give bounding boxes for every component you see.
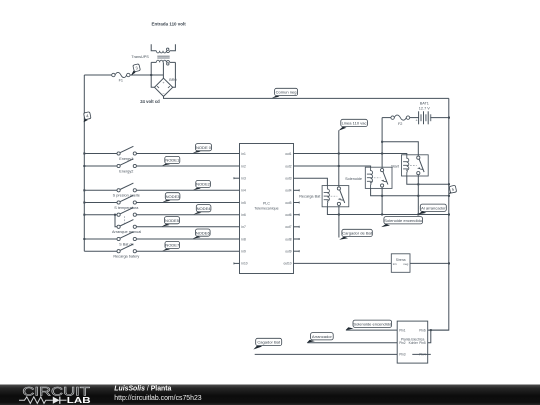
- relay Start: [391, 155, 428, 176]
- switch S temperatura: [83, 195, 239, 210]
- wire: fuse F1 to transformer/bridge assembly: [130, 74, 163, 76]
- wire: Pin1 from Solenoide encendido flag: [346, 329, 397, 331]
- net flag Solenoide encendido: [381, 217, 423, 228]
- wire: Comun neg, bridge bottom vertex across to right rail: [164, 96, 449, 98]
- svg-text:Pin4: Pin4: [419, 353, 426, 357]
- wire: 110V input horizontal from left rail to fuse F1: [84, 74, 111, 76]
- switch S Bat ok: [83, 232, 239, 247]
- transformer TransUPS: [151, 44, 175, 65]
- svg-text:in1: in1: [242, 152, 246, 156]
- svg-text:S Bat ok: S Bat ok: [119, 242, 133, 246]
- svg-text:Energy2: Energy2: [119, 169, 133, 173]
- junction rail / battery negative: [448, 117, 450, 119]
- svg-text:in10: in10: [242, 262, 248, 266]
- svg-text:NODE6: NODE6: [196, 230, 211, 235]
- svg-text:12.7 V: 12.7 V: [419, 107, 430, 111]
- CircuitLab logo: [19, 385, 91, 405]
- wire: Linea 110 vac vertical to Recarga Bat switch: [338, 130, 340, 185]
- wire: Solenoide coil bottom to rail: [371, 188, 449, 195]
- bridge rectifier BR0: [155, 78, 173, 96]
- wire: Recarga coil bottom to rail: [327, 207, 448, 215]
- svg-text:in6: in6: [242, 213, 246, 217]
- svg-text:Linea 110 vac: Linea 110 vac: [342, 121, 367, 126]
- junction at input wire and left leg: [150, 74, 152, 76]
- svg-text:BR0: BR0: [169, 78, 176, 82]
- Sirena box: [391, 254, 410, 272]
- svg-text:NODE3: NODE3: [166, 194, 181, 199]
- svg-text:out2: out2: [285, 164, 291, 168]
- svg-text:Pin2: Pin2: [399, 341, 406, 345]
- net flag Solenoide encendido (bottom): [346, 320, 392, 330]
- wire: branch to Start relay switch top: [382, 142, 418, 155]
- node flag NODE3: [162, 193, 180, 203]
- wire: Pin6 stub to rail junction: [428, 329, 449, 331]
- dashed mechanical link of Arranque manual: [124, 216, 126, 224]
- svg-text:neg: neg: [403, 262, 408, 266]
- svg-text:LuisSolis / Planta: LuisSolis / Planta: [114, 385, 171, 392]
- wire: Pin3 from Cagador Bat flag: [255, 353, 398, 355]
- net flag Cargador de Bat: [339, 229, 373, 240]
- switch Energy1: [83, 146, 239, 161]
- primary bracket: [151, 44, 175, 50]
- svg-text:NODE2: NODE2: [196, 182, 211, 187]
- secondary coil: [156, 60, 169, 62]
- svg-text:out9: out9: [285, 250, 291, 254]
- svg-text:Recarga Bat: Recarga Bat: [299, 194, 321, 198]
- svg-text:NODE 0: NODE 0: [196, 145, 212, 150]
- pin out9 (stub): [285, 250, 299, 254]
- wire: out10 to Sirena: [294, 262, 392, 264]
- junction battery feed / Start switch branch: [381, 141, 383, 143]
- net flag Al arrancador: [418, 204, 447, 214]
- fuse F2: [382, 115, 410, 126]
- wire: Recarga switch bottom down to Cargador de Bat flag: [338, 207, 340, 238]
- svg-text:Arranque manual: Arranque manual: [112, 230, 141, 234]
- wire: right rail (Comun neg): [431, 98, 449, 330]
- wire: Pin6 to Pin5 link: [428, 330, 431, 343]
- svg-text:Telemecanique: Telemecanique: [254, 207, 278, 211]
- svg-text:Al arrancador: Al arrancador: [421, 205, 446, 210]
- svg-text:out1: out1: [285, 152, 291, 156]
- junction out1 / Linea vertical: [338, 153, 340, 155]
- pin out8 (stub): [285, 237, 299, 241]
- node flag NODE6: [193, 229, 211, 239]
- svg-text:NODE1: NODE1: [165, 158, 180, 163]
- wire: out3 to Recarga Bat relay coil: [294, 178, 328, 185]
- svg-text:in4: in4: [242, 189, 246, 193]
- svg-text:out3: out3: [285, 177, 291, 181]
- battery BAT1 12.7 V: [410, 102, 449, 125]
- node flag NODE 0: [193, 144, 212, 154]
- svg-text:PLC: PLC: [263, 202, 270, 206]
- svg-text:Pin3: Pin3: [399, 353, 406, 357]
- svg-text:in9: in9: [242, 250, 246, 254]
- svg-text:Solenoide encendido: Solenoide encendido: [384, 218, 423, 223]
- wire: secondary right leg down to bridge right vertex: [173, 62, 176, 87]
- svg-text:in2: in2: [242, 164, 246, 168]
- svg-text:Cargador de Bat: Cargador de Bat: [342, 231, 373, 236]
- wire: secondary center tap down to bridge top vertex: [162, 62, 164, 78]
- svg-text:out6: out6: [285, 213, 291, 217]
- svg-text:LAB: LAB: [67, 396, 91, 405]
- svg-text:S presion aceite: S presion aceite: [113, 194, 140, 198]
- svg-text:out10: out10: [284, 262, 292, 266]
- wire: Sirena to rail: [410, 262, 449, 264]
- wire: battery positive feed vertical (F2 down to Solenoide switch): [381, 118, 383, 168]
- pin out7 (stub): [285, 225, 299, 229]
- svg-text:F1: F1: [119, 79, 123, 83]
- Planta Electrica box: [397, 321, 428, 363]
- svg-text:Solenoide encendidó: Solenoide encendidó: [353, 321, 392, 326]
- svg-text:S temperatura: S temperatura: [114, 206, 139, 210]
- svg-text:out5: out5: [285, 201, 291, 205]
- svg-text:Comun neg: Comun neg: [276, 90, 297, 95]
- svg-text:Entrada 110 volt: Entrada 110 volt: [152, 21, 187, 26]
- junction out1 / battery feed vertical: [381, 153, 383, 155]
- switch S presion aceite: [83, 183, 239, 198]
- pin out4 (stub): [285, 189, 299, 193]
- svg-text:NODE4: NODE4: [197, 206, 212, 211]
- svg-text:in5: in5: [242, 201, 246, 205]
- net flag Linea 110 vac: [338, 119, 367, 130]
- PLC Telemecanique box U1: [240, 144, 294, 274]
- svg-text:Pin5: Pin5: [419, 341, 426, 345]
- node 4 badge: [84, 112, 92, 123]
- svg-text:NODE7: NODE7: [165, 243, 180, 248]
- wire: Pin2 from Arrancador flag: [307, 342, 397, 344]
- net flag Comun neg: [272, 88, 298, 98]
- node 3 badge: [131, 64, 141, 76]
- wire: out2 to Solenoide relay coil: [294, 166, 371, 167]
- net flag Cagador Bat: [253, 338, 281, 349]
- svg-text:in1: in1: [393, 262, 397, 266]
- pin out5 (stub): [285, 201, 299, 205]
- wire: out1 bus to Start relay coil: [294, 154, 407, 155]
- svg-text:out7: out7: [285, 225, 291, 229]
- wire: gang link between Arranque manual poles: [114, 214, 116, 216]
- svg-text:NODE5: NODE5: [165, 218, 180, 223]
- wire: left vertical rail: [83, 75, 85, 251]
- pin in10 (unconnected stub): [234, 262, 248, 266]
- svg-text:Arrancador: Arrancador: [312, 334, 333, 339]
- pin out6 (stub): [285, 213, 299, 217]
- node flag NODE5: [162, 217, 180, 227]
- relay Solenoide: [345, 167, 392, 188]
- switch Arranque manual (pole B): [112, 220, 239, 235]
- svg-text:F2: F2: [398, 122, 402, 126]
- net flag Arrancador: [307, 333, 333, 343]
- switch Arranque manual (pole A): [83, 208, 239, 217]
- wire: Start switch bottom down to Al arrancador node: [417, 176, 419, 215]
- svg-text:out8: out8: [285, 237, 291, 241]
- svg-text:in3: in3: [242, 177, 246, 181]
- svg-text:Start: Start: [391, 165, 400, 169]
- svg-text:BAT1: BAT1: [420, 102, 429, 106]
- svg-text:out4: out4: [285, 189, 291, 193]
- wire: Solenoide switch bottom down to Solenoide encendido node: [381, 188, 383, 214]
- svg-text:Kohler: Kohler: [409, 341, 419, 345]
- junction out2 / Linea vertical: [338, 165, 340, 167]
- svg-text:Recarga batery: Recarga batery: [113, 255, 139, 259]
- core: [157, 55, 169, 57]
- svg-text:in7: in7: [242, 225, 246, 229]
- svg-text:Pin1: Pin1: [399, 328, 406, 332]
- pin Pin4 with crossing wire: [412, 353, 431, 357]
- node flag NODE7: [162, 241, 180, 251]
- relay Recarga Bat: [299, 186, 349, 207]
- fuse F1: [112, 72, 130, 82]
- svg-text:Pin6: Pin6: [419, 328, 426, 332]
- wire: secondary left leg down to bridge left vertex: [151, 62, 154, 87]
- switch Recarga batery: [84, 244, 239, 259]
- pin in3 (unconnected stub): [234, 177, 246, 181]
- node flag NODE4: [193, 205, 211, 215]
- node flag NODE1: [162, 156, 180, 165]
- switch Energy2: [83, 159, 239, 174]
- svg-text:in8: in8: [242, 237, 246, 241]
- node flag NODE2: [193, 180, 211, 190]
- node 5 badge: [449, 185, 457, 194]
- primary coil: [156, 51, 169, 53]
- svg-text:Cagador Bat: Cagador Bat: [257, 340, 281, 345]
- svg-text:TransUPS: TransUPS: [131, 55, 149, 59]
- svg-text:24 volt cd: 24 volt cd: [140, 99, 160, 104]
- wire: Start coil bottom to rail: [407, 176, 449, 184]
- svg-text:Solenoide: Solenoide: [345, 177, 362, 181]
- svg-text:http://circuitlab.com/cs75h23: http://circuitlab.com/cs75h23: [114, 395, 201, 402]
